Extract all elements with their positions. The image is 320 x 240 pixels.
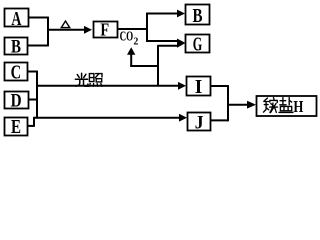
wire J to merge: [211, 119, 229, 121]
svg-text:H: H: [293, 97, 303, 116]
svg-text:CO: CO: [120, 29, 134, 44]
svg-text:G: G: [193, 33, 203, 55]
box J: [188, 113, 211, 134]
junction vertical to I line: [157, 46, 159, 86]
wire E to J: [33, 117, 180, 119]
box I: [187, 76, 211, 98]
svg-text:J: J: [195, 113, 204, 134]
arrowhead into B right: [177, 10, 185, 18]
wire D to bracket: [29, 99, 38, 101]
svg-text:C: C: [11, 61, 22, 83]
svg-text:B: B: [193, 5, 203, 27]
svg-text:2: 2: [134, 37, 139, 48]
wire F to split: [118, 28, 148, 30]
svg-text:B: B: [11, 36, 21, 57]
arrowhead up to CO2: [127, 47, 135, 55]
arrowhead into H: [247, 101, 256, 109]
label CO2: [120, 29, 139, 48]
wire A to bracket: [29, 17, 49, 19]
wire B to bracket: [28, 45, 49, 47]
box ammonium salt H: [257, 96, 317, 116]
wire light to I: [36, 85, 179, 87]
wire split to B arrow: [146, 13, 178, 15]
box G: [186, 33, 210, 55]
split vertical F: [146, 13, 148, 42]
merge vertical: [227, 85, 229, 121]
svg-text:E: E: [11, 116, 21, 138]
label ammonium salt letter H: [293, 97, 303, 116]
arrowhead into G: [177, 39, 186, 48]
box B left: [5, 36, 28, 57]
label ammonium salt char yan: [279, 98, 293, 113]
wire C to bracket: [28, 71, 38, 73]
svg-text:D: D: [11, 91, 22, 112]
wire E to elbow: [28, 125, 35, 127]
wire bracket to F arrow: [47, 29, 85, 31]
arrowhead into I: [178, 82, 186, 90]
arrowhead into F: [84, 26, 92, 34]
wire junction to CO2 arrow: [130, 65, 159, 67]
wire split to G arrow upper: [146, 40, 178, 42]
box B right: [186, 5, 210, 28]
delta heat symbol: [61, 21, 69, 28]
wire junction to G lower: [157, 45, 178, 47]
box C: [5, 61, 28, 83]
box F: [94, 20, 118, 40]
bracket CD vertical: [36, 71, 38, 119]
wire I to merge: [211, 85, 228, 87]
CO2 up arrow vertical: [130, 54, 132, 67]
label guangzhao light char zhao: [89, 74, 102, 87]
svg-text:I: I: [195, 76, 203, 98]
elbow E vertical: [33, 118, 35, 127]
box D: [5, 91, 29, 112]
box E: [5, 116, 28, 138]
bracket AB vertical: [47, 17, 49, 47]
label ammonium salt char an: [264, 98, 278, 113]
svg-text:A: A: [11, 8, 21, 30]
label guangzhao light char guang: [75, 73, 88, 86]
wire merge to H arrow: [227, 104, 248, 106]
arrowhead into J: [179, 114, 187, 122]
svg-text:F: F: [100, 20, 109, 40]
box A: [5, 8, 29, 30]
